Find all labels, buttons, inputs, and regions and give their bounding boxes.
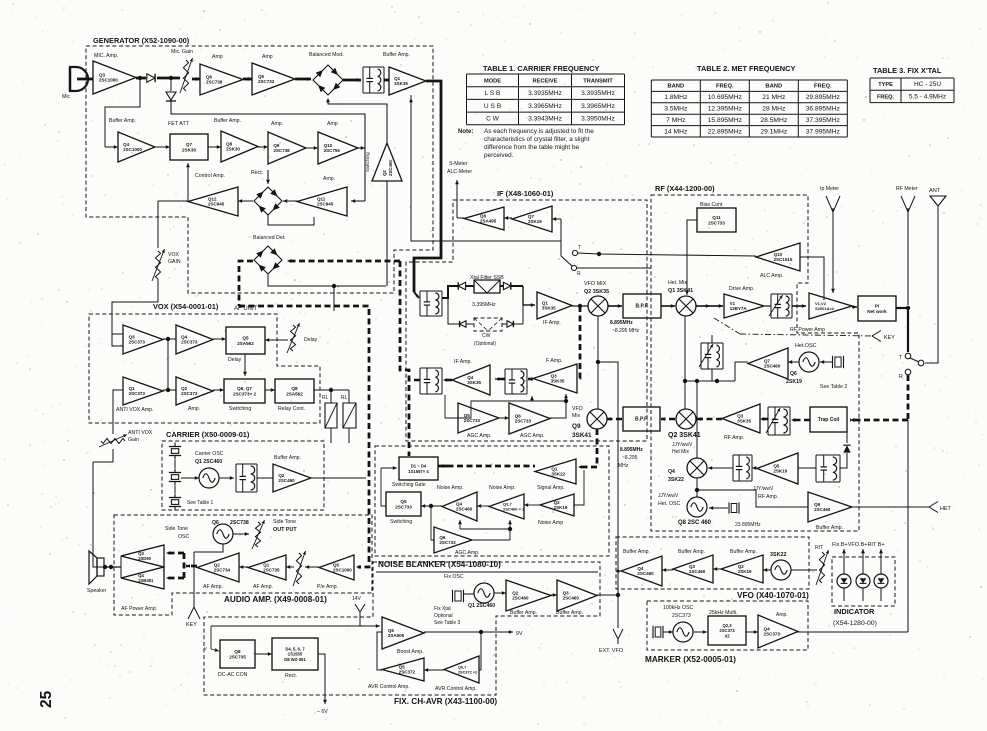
svg-text:Optional: Optional bbox=[434, 613, 453, 619]
wire rect feedback to Q11 bottom bbox=[268, 215, 314, 225]
svg-text:Q1: Q1 bbox=[129, 386, 136, 391]
transformer IF mid bbox=[505, 368, 527, 370]
svg-text:Q1: Q1 bbox=[551, 466, 558, 471]
wire tank to Q3 heavy bbox=[760, 418, 768, 421]
amp Q2 2SC460 fix buffer bbox=[506, 580, 551, 611]
svg-text:2SC733: 2SC733 bbox=[708, 220, 725, 225]
svg-text:characteristics of crystal fil: characteristics of crystal filter, a sli… bbox=[484, 136, 590, 143]
svg-text:Q6,7: Q6,7 bbox=[458, 665, 466, 669]
svg-text:2SC460: 2SC460 bbox=[764, 364, 781, 369]
svg-text:VOX: VOX bbox=[168, 252, 179, 258]
wire het distribution bbox=[685, 380, 735, 382]
svg-text:Gain: Gain bbox=[128, 437, 139, 443]
wire Q9 to Q10 bbox=[306, 147, 318, 149]
svg-text:AGC Amp.: AGC Amp. bbox=[455, 550, 480, 556]
wire receive heavy dashed from switch bbox=[907, 375, 910, 420]
wire side tone osc down bbox=[194, 544, 223, 552]
svg-text:Q2: Q2 bbox=[554, 500, 561, 505]
svg-text:R: R bbox=[577, 271, 581, 277]
wire ext vfo down bbox=[617, 568, 619, 628]
transformer IF input bbox=[420, 290, 442, 292]
wire balanced det output down bbox=[268, 274, 386, 286]
amp Q6 2SC733 AGC Amp nb bbox=[434, 527, 472, 553]
amp Q6 2SC733 AGC Amp bbox=[509, 403, 550, 434]
block Q5 2SA562 bbox=[226, 327, 265, 354]
wire Q8 to Q9 bbox=[258, 146, 268, 148]
svg-text:Trap Coil: Trap Coil bbox=[818, 417, 840, 423]
wire agc feedback bbox=[550, 396, 566, 418]
wire nb q1 to q2 bbox=[574, 470, 584, 505]
module box VOX X54-0001-01 bbox=[89, 314, 320, 423]
svg-text:Q10: Q10 bbox=[324, 143, 333, 148]
svg-text:2SK30: 2SK30 bbox=[182, 147, 196, 152]
wire key line bbox=[193, 552, 195, 607]
filter B.P.F. receive bbox=[623, 407, 660, 431]
wire delay pot to Q5 bbox=[265, 339, 288, 341]
led D2 indicator bbox=[856, 574, 870, 588]
wire R line bbox=[577, 267, 651, 269]
module box NOISE BLANKER X54-1080-10 bbox=[375, 446, 609, 556]
wire junction to buffer Q4 bbox=[105, 78, 140, 147]
module box IF X48-1060-01 bbox=[406, 200, 647, 441]
svg-text:2SC372 ×2: 2SC372 ×2 bbox=[458, 671, 477, 675]
svg-text:TABLE 3. FIX X'TAL: TABLE 3. FIX X'TAL bbox=[873, 66, 942, 75]
svg-text:DC-AC CON: DC-AC CON bbox=[218, 672, 248, 678]
wire Q1 to VFO mixer bbox=[572, 305, 588, 307]
svg-text:TABLE 2. MET FREQUENCY: TABLE 2. MET FREQUENCY bbox=[697, 64, 795, 73]
tuned circuit jjy 2 bbox=[816, 454, 840, 456]
wire Q10 output bbox=[358, 147, 365, 149]
module box FIX CH-AVR X43-1100-00 bbox=[204, 562, 600, 695]
wire vfo output bbox=[618, 570, 621, 572]
svg-text:2SA562: 2SA562 bbox=[286, 391, 303, 396]
wire Q5 to pot bbox=[305, 566, 319, 568]
svg-text:Q4: Q4 bbox=[637, 566, 644, 571]
svg-text:2SC735: 2SC735 bbox=[229, 654, 246, 659]
HET connector bbox=[929, 502, 938, 508]
wire gate input arrow bbox=[381, 467, 397, 469]
svg-text:Q2: Q2 bbox=[512, 590, 519, 595]
svg-text:Q3: Q3 bbox=[737, 413, 744, 418]
wire key dash-dot bbox=[714, 318, 740, 334]
svg-text:FREQ.: FREQ. bbox=[877, 94, 895, 100]
svg-text:Q4: Q4 bbox=[181, 334, 188, 339]
block Q5 2SC733 Switching bbox=[386, 492, 421, 516]
svg-text:Noise Amp.: Noise Amp. bbox=[489, 485, 516, 491]
wire rf meter line bbox=[907, 212, 909, 305]
svg-text:B.P.F.: B.P.F. bbox=[636, 304, 650, 310]
block Pi Network bbox=[858, 296, 896, 321]
svg-text:2SC372: 2SC372 bbox=[399, 670, 416, 675]
wire q37 to q4 bbox=[477, 505, 489, 507]
svg-text:7 MHz: 7 MHz bbox=[666, 117, 686, 124]
module box VFO X40-1070-01 bbox=[616, 537, 809, 589]
wire power amps to speaker bbox=[120, 556, 122, 578]
wire q3 to q4 bbox=[662, 569, 673, 571]
wire fix output to ext vfo line bbox=[597, 594, 618, 596]
svg-text:MHz: MHz bbox=[618, 463, 629, 469]
wire ip meter line bbox=[832, 212, 834, 290]
module box GENERATOR X52-1090-00 bbox=[86, 46, 433, 293]
svg-text:Note:: Note: bbox=[458, 129, 473, 135]
amp Q5 2SC372 AVR Control bbox=[382, 658, 424, 681]
crystal X3 carrier bbox=[171, 500, 178, 505]
wire cw out bbox=[522, 305, 524, 324]
amp Q1 3SK22 Signal Amp bbox=[535, 459, 576, 484]
wire q8 to rect bbox=[255, 653, 272, 655]
wire balanced mod to transformer bbox=[343, 79, 361, 82]
svg-text:Q9: Q9 bbox=[814, 502, 821, 507]
svg-text:Q7: Q7 bbox=[528, 214, 535, 219]
wire mixer to BPF2 heavy bbox=[661, 418, 675, 421]
svg-text:Q2,3: Q2,3 bbox=[722, 623, 732, 628]
wire Q3 output bbox=[136, 77, 146, 80]
svg-text:Mix: Mix bbox=[572, 413, 580, 419]
svg-text:21 MHz: 21 MHz bbox=[762, 94, 786, 101]
svg-text:Q9: Q9 bbox=[273, 143, 280, 148]
svg-text:2SC755: 2SC755 bbox=[324, 148, 341, 153]
svg-text:2SC373: 2SC373 bbox=[129, 391, 146, 396]
pot AF gain bbox=[296, 553, 301, 584]
svg-text:Buffer Amp.: Buffer Amp. bbox=[510, 610, 537, 616]
wire Q12 to FET ATT control bbox=[187, 172, 189, 201]
wire Q1 to Q2 bbox=[163, 389, 176, 391]
crystal filter CW optional bbox=[474, 318, 502, 331]
svg-text:Q1 2SC460: Q1 2SC460 bbox=[195, 459, 222, 465]
svg-text:S2001A×2: S2001A×2 bbox=[815, 306, 835, 311]
svg-text:2SK30: 2SK30 bbox=[226, 147, 240, 152]
wire osc to q2 bbox=[763, 569, 771, 571]
svg-text:Switching: Switching bbox=[365, 152, 370, 172]
svg-text:Buffer Amp.: Buffer Amp. bbox=[383, 52, 410, 58]
svg-text:2SB481: 2SB481 bbox=[138, 578, 154, 583]
wire rect output -6V bbox=[318, 654, 325, 698]
svg-text:R: R bbox=[899, 374, 903, 380]
svg-text:2SK19: 2SK19 bbox=[786, 379, 802, 385]
svg-text:2SC460: 2SC460 bbox=[637, 571, 654, 576]
amp Q8 2SA495 bbox=[464, 207, 504, 230]
wire Q1 to Q2 bbox=[239, 566, 248, 568]
svg-text:RF Meter: RF Meter bbox=[896, 186, 918, 192]
svg-text:3SK22: 3SK22 bbox=[770, 552, 786, 558]
amp Q1 3SK35 IF Amp bbox=[537, 292, 572, 319]
wire gate to Q1 heavy bbox=[438, 465, 535, 468]
amp Q3 2SC460 fix buffer bbox=[557, 580, 597, 611]
tuned circuit carrier tank bbox=[236, 463, 257, 465]
svg-text:Buffer Amp.: Buffer Amp. bbox=[556, 610, 583, 616]
svg-text:Q12: Q12 bbox=[208, 196, 217, 201]
svg-text:2SA506: 2SA506 bbox=[388, 633, 405, 638]
module box AUDIO AMP X49-0008-01 bbox=[114, 515, 372, 615]
crystal marker bbox=[655, 627, 661, 637]
svg-text:Mic. Gain: Mic. Gain bbox=[171, 49, 193, 55]
amp Q1 2SC735 AF Amp bbox=[248, 555, 286, 580]
svg-text:8.895MHz: 8.895MHz bbox=[620, 447, 643, 453]
svg-text:9V: 9V bbox=[516, 631, 523, 637]
svg-text:2SC733: 2SC733 bbox=[258, 79, 275, 84]
svg-text:Carrier OSC: Carrier OSC bbox=[195, 451, 224, 457]
svg-text:Ip Meter: Ip Meter bbox=[820, 186, 839, 192]
wire transformer to Q1 bbox=[384, 79, 389, 82]
wire T line to ALC amp bbox=[578, 253, 756, 256]
diode cw in bbox=[460, 321, 466, 327]
amp Q2 2SC373 bbox=[176, 377, 213, 405]
svg-text:2SD90: 2SD90 bbox=[138, 556, 151, 561]
svg-text:Het. Mix: Het. Mix bbox=[668, 280, 687, 286]
KEY symbol rf bbox=[872, 331, 881, 337]
svg-text:2SC460: 2SC460 bbox=[814, 507, 831, 512]
wire q2 to q3 fix bbox=[551, 594, 557, 596]
svg-text:D4, 5, 6, 7: D4, 5, 6, 7 bbox=[285, 646, 305, 651]
wire Q3 to transformer heavy bbox=[528, 378, 533, 381]
svg-text:AVR Control Amp.: AVR Control Amp. bbox=[368, 684, 410, 690]
svg-text:1S1555: 1S1555 bbox=[288, 652, 303, 657]
amp Q6 Q7 2SC372x2 AVR Control bbox=[444, 656, 479, 683]
svg-text:2SC460: 2SC460 bbox=[512, 596, 529, 601]
svg-text:2SC1515: 2SC1515 bbox=[774, 257, 793, 262]
svg-text:Amp.: Amp. bbox=[188, 406, 200, 412]
wire relay leads bbox=[330, 428, 332, 443]
svg-text:Q8 2SC 460: Q8 2SC 460 bbox=[678, 520, 712, 526]
svg-text:Q8: Q8 bbox=[226, 141, 233, 146]
svg-text:Q7: Q7 bbox=[764, 358, 771, 363]
svg-text:2SC733: 2SC733 bbox=[515, 419, 532, 424]
svg-text:Noise Amp.: Noise Amp. bbox=[437, 485, 464, 491]
wire Q7 to het tank bbox=[735, 362, 748, 381]
amp Q5 2SC733 AGC Amp bbox=[458, 403, 499, 433]
wire Q5 to tank jjy bbox=[752, 467, 757, 469]
svg-text:Speaker: Speaker bbox=[87, 588, 107, 594]
svg-text:Q3: Q3 bbox=[129, 334, 136, 339]
wire Q7 to Q8 bbox=[504, 217, 512, 219]
svg-text:RF Amp.: RF Amp. bbox=[724, 435, 744, 441]
wire interstage bbox=[167, 339, 169, 390]
svg-text:Q10: Q10 bbox=[774, 252, 783, 257]
svg-text:2SC373: 2SC373 bbox=[672, 613, 691, 619]
svg-text:MIC. Amp.: MIC. Amp. bbox=[94, 53, 118, 59]
svg-text:2SC460: 2SC460 bbox=[388, 160, 393, 176]
wire rect to Q12 bbox=[238, 200, 253, 202]
svg-text:Q9: Q9 bbox=[572, 423, 581, 430]
svg-text:As each frequency is adjusted: As each frequency is adjusted to fit the bbox=[484, 128, 594, 135]
filter B.P.F. transmit bbox=[623, 294, 661, 318]
amp Q4 2SC373 VOX bbox=[176, 325, 213, 354]
wire filter to Q1 IF amp bbox=[523, 304, 535, 306]
wire marker vertical line bbox=[907, 420, 909, 632]
amp Q7 2SK19 bbox=[512, 206, 552, 232]
svg-text:KEY: KEY bbox=[186, 622, 197, 628]
svg-text:FREQ.: FREQ. bbox=[814, 84, 832, 90]
wire pot to Q1 bbox=[286, 566, 294, 568]
svg-text:AUDIO AMP. (X49-0008-01): AUDIO AMP. (X49-0008-01) bbox=[224, 595, 327, 604]
svg-text:Amp: Amp bbox=[212, 54, 223, 60]
svg-text:Q6: Q6 bbox=[515, 413, 522, 418]
svg-text:2SC738: 2SC738 bbox=[273, 148, 290, 153]
transformer tuned circuit T1 bbox=[363, 66, 384, 68]
amp Q6 2SA506 Boost Amp bbox=[382, 617, 424, 649]
svg-text:D8 WZ-061: D8 WZ-061 bbox=[284, 657, 306, 662]
svg-text:36.895MHz: 36.895MHz bbox=[806, 106, 841, 113]
wire Q1 AGC line down bbox=[411, 95, 561, 241]
svg-text:Q5: Q5 bbox=[464, 413, 471, 418]
svg-text:5.5 - 4.9MHz: 5.5 - 4.9MHz bbox=[909, 93, 946, 100]
svg-text:2SK19: 2SK19 bbox=[773, 469, 787, 474]
block Q6 Q7 2SC373x2 Switching bbox=[224, 379, 265, 403]
svg-text:Side Tone: Side Tone bbox=[273, 519, 296, 525]
led D1 indicator bbox=[837, 574, 851, 588]
svg-text:28.5MHz: 28.5MHz bbox=[760, 117, 787, 124]
amp Q1 2SC373 ANTI VOX bbox=[123, 377, 163, 405]
svg-text:L S B: L S B bbox=[485, 90, 501, 97]
wire anti vox line bbox=[113, 390, 123, 434]
svg-text:15.895MHz: 15.895MHz bbox=[708, 117, 743, 124]
svg-text:GENERATOR (X52-1090-00): GENERATOR (X52-1090-00) bbox=[93, 36, 190, 45]
svg-text:Pi: Pi bbox=[875, 304, 879, 309]
svg-text:Q6: Q6 bbox=[206, 74, 213, 79]
svg-text:AF Power Amp.: AF Power Amp. bbox=[121, 606, 157, 612]
svg-text:2SC945: 2SC945 bbox=[317, 202, 334, 207]
svg-text:Q4: Q4 bbox=[123, 142, 130, 147]
diode cw out bbox=[507, 321, 513, 327]
svg-text:OSC: OSC bbox=[178, 534, 189, 540]
svg-text:T: T bbox=[578, 245, 581, 251]
svg-text:3SK35: 3SK35 bbox=[737, 419, 751, 424]
svg-text:Q3: Q3 bbox=[551, 373, 558, 378]
svg-text:2SC460: 2SC460 bbox=[563, 596, 580, 601]
tuned circuit rf rx bbox=[768, 406, 790, 408]
wire Q2 to Q6Q7 bbox=[213, 389, 224, 391]
svg-text:22.895MHz: 22.895MHz bbox=[708, 128, 743, 135]
block Q8 2SA562 Relay Cont bbox=[275, 379, 314, 403]
wire heavy dashed Q2 to power amps bbox=[186, 565, 197, 568]
transformer IF 2nd bbox=[420, 367, 442, 369]
wire nb agc feedback bbox=[472, 539, 510, 541]
svg-text:Relay Cont.: Relay Cont. bbox=[278, 406, 305, 412]
svg-text:1S1587× 4: 1S1587× 4 bbox=[408, 469, 429, 474]
svg-text:FIX. CH-AVR (X43-1100-00): FIX. CH-AVR (X43-1100-00) bbox=[394, 697, 497, 706]
svg-text:37.995MHz: 37.995MHz bbox=[806, 128, 841, 135]
amp V1 V2 S2001Ax2 RF power bbox=[809, 293, 852, 319]
svg-text:Amp: Amp bbox=[327, 121, 338, 127]
svg-text:Mic: Mic bbox=[62, 94, 70, 100]
svg-text:AF Amp.: AF Amp. bbox=[203, 584, 223, 590]
svg-text:29.1MHz: 29.1MHz bbox=[760, 128, 787, 135]
svg-text:TYPE: TYPE bbox=[878, 82, 893, 88]
mixer Q2 3SK41 JJY Het Mix bbox=[676, 409, 696, 429]
svg-text:RL: RL bbox=[322, 395, 329, 401]
wire xtal filter out bbox=[522, 286, 524, 305]
wire tank to Q2 bbox=[257, 477, 273, 479]
svg-text:D1 ~ D4: D1 ~ D4 bbox=[411, 464, 427, 469]
svg-text:1.8MHz: 1.8MHz bbox=[664, 94, 688, 101]
svg-text:Balanced Det.: Balanced Det. bbox=[253, 235, 286, 241]
svg-text:CW: CW bbox=[482, 333, 491, 339]
svg-text:Q11: Q11 bbox=[317, 196, 326, 201]
wire rit to osc bbox=[791, 569, 817, 571]
svg-text:Buffer Amp.: Buffer Amp. bbox=[274, 455, 301, 461]
svg-text:JJY/wwV: JJY/wwV bbox=[658, 493, 679, 499]
wire Q2 switching to balanced det line bbox=[386, 181, 388, 286]
svg-text:100kHz OSC: 100kHz OSC bbox=[663, 605, 694, 611]
wire transformer to nb heavy bbox=[409, 379, 420, 382]
svg-text:B.P.F.: B.P.F. bbox=[635, 417, 649, 423]
svg-text:Noise Amp: Noise Amp bbox=[538, 520, 563, 526]
svg-text:C W: C W bbox=[486, 115, 500, 122]
svg-text:Side Tone: Side Tone bbox=[165, 526, 188, 532]
svg-text:2SC460: 2SC460 bbox=[689, 569, 706, 574]
svg-text:2SA562: 2SA562 bbox=[237, 341, 254, 346]
svg-text:Q1: Q1 bbox=[394, 76, 401, 81]
crystal X1 carrier bbox=[171, 449, 178, 454]
svg-text:Q1 2SC460: Q1 2SC460 bbox=[468, 603, 495, 609]
svg-text:(X54-1280-00): (X54-1280-00) bbox=[833, 620, 877, 627]
svg-text:Switching: Switching bbox=[390, 519, 412, 525]
svg-text:Q1: Q1 bbox=[542, 300, 549, 305]
wire crystals chain bbox=[174, 460, 176, 468]
svg-text:Q1: Q1 bbox=[263, 562, 270, 567]
wire diode to mic gain bbox=[157, 77, 180, 80]
wire 14V rail bbox=[211, 625, 380, 627]
svg-text:IF Amp.: IF Amp. bbox=[543, 320, 561, 326]
svg-text:GAIN: GAIN bbox=[168, 259, 181, 265]
svg-text:2SC373: 2SC373 bbox=[719, 628, 735, 633]
wire mic-gain diode branch bbox=[166, 92, 176, 100]
svg-text:Buffer Amp.: Buffer Amp. bbox=[816, 525, 843, 531]
svg-text:29.895MHz: 29.895MHz bbox=[806, 94, 841, 101]
svg-text:Het.OSC: Het.OSC bbox=[795, 343, 817, 349]
svg-text:2SC1000: 2SC1000 bbox=[123, 147, 142, 152]
wire drive tank output bbox=[764, 305, 771, 307]
svg-text:Control Amp.: Control Amp. bbox=[195, 173, 225, 179]
amp Q3 2SC373 VOX bbox=[123, 325, 163, 354]
wire boost output 9V bbox=[424, 631, 481, 633]
svg-text:2SC733: 2SC733 bbox=[439, 540, 456, 545]
svg-text:3SK41: 3SK41 bbox=[572, 432, 592, 439]
svg-text:25: 25 bbox=[38, 690, 55, 708]
svg-text:Q3: Q3 bbox=[689, 564, 696, 569]
svg-text:INDICATOR: INDICATOR bbox=[834, 607, 875, 616]
wire VFO line vertical bbox=[597, 316, 599, 409]
wire q67 to q5 bbox=[424, 669, 444, 671]
svg-text:2SC733: 2SC733 bbox=[395, 504, 412, 509]
svg-text:28 MHz: 28 MHz bbox=[762, 106, 786, 113]
svg-text:~8.295: ~8.295 bbox=[622, 455, 638, 461]
svg-text:14V: 14V bbox=[352, 596, 362, 602]
wire Q6 to Q5 bbox=[243, 78, 252, 81]
amp Q4 2SB481 AF power bbox=[121, 567, 164, 589]
svg-text:See Table 3: See Table 3 bbox=[434, 620, 461, 626]
svg-text:23.895MHz: 23.895MHz bbox=[735, 522, 761, 528]
svg-text:Q2: Q2 bbox=[214, 562, 221, 567]
svg-text:See Table 2: See Table 2 bbox=[820, 384, 847, 390]
svg-text:Switching: Switching bbox=[229, 406, 251, 412]
svg-text:AF Amp.: AF Amp. bbox=[253, 584, 273, 590]
wire BPF to het mix bbox=[661, 305, 675, 307]
svg-text:Q2: Q2 bbox=[181, 386, 188, 391]
EXT VFO connector bbox=[613, 629, 618, 639]
svg-text:Buffer Amp.: Buffer Amp. bbox=[730, 549, 757, 555]
wire AF unit heavy box bbox=[239, 306, 369, 567]
svg-text:X2: X2 bbox=[724, 634, 730, 639]
svg-text:RECEIVE: RECEIVE bbox=[533, 78, 558, 84]
svg-text:BAND: BAND bbox=[667, 84, 684, 90]
svg-text:2SC1000: 2SC1000 bbox=[99, 78, 118, 83]
svg-text:Q3: Q3 bbox=[138, 551, 144, 556]
svg-text:Q11: Q11 bbox=[712, 215, 721, 220]
svg-text:Delay: Delay bbox=[304, 337, 318, 343]
svg-text:Amp.: Amp. bbox=[776, 612, 788, 618]
amp Q3 2SD90 AF power bbox=[121, 545, 164, 567]
